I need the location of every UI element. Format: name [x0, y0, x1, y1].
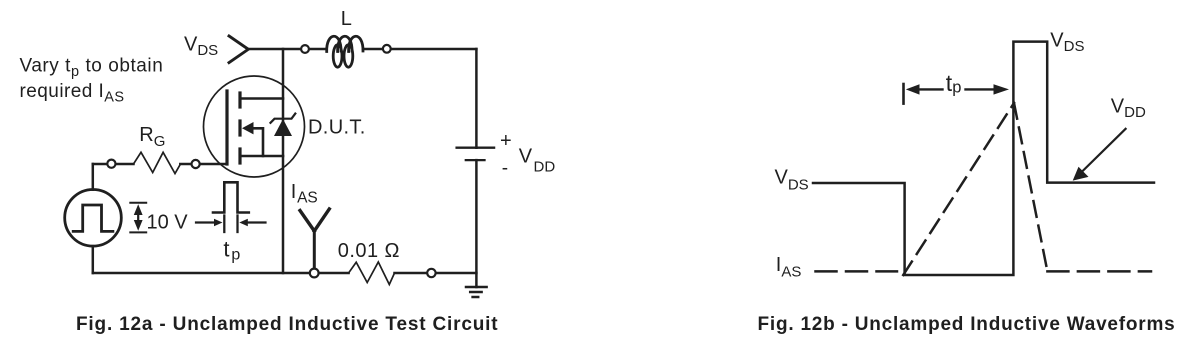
svg-text:VDS: VDS — [1050, 30, 1084, 55]
svg-text:VDS: VDS — [184, 34, 218, 60]
svg-text:Fig. 12a - Unclamped Inductive: Fig. 12a - Unclamped Inductive Test Circ… — [76, 314, 498, 335]
svg-text:Vary tp to obtain: Vary tp to obtain — [20, 56, 164, 81]
svg-text:required IAS: required IAS — [20, 81, 125, 106]
svg-text:-: - — [502, 158, 508, 179]
svg-text:VDD: VDD — [1111, 96, 1146, 122]
svg-text:tp: tp — [223, 236, 240, 263]
svg-text:10 V: 10 V — [147, 211, 189, 233]
svg-text:+: + — [500, 130, 512, 152]
svg-text:VDS: VDS — [775, 166, 809, 193]
svg-text:IAS: IAS — [776, 254, 802, 280]
svg-text:RG: RG — [139, 124, 165, 150]
svg-text:IAS: IAS — [291, 181, 318, 207]
svg-text:0.01 Ω: 0.01 Ω — [338, 240, 400, 262]
svg-text:tp: tp — [946, 70, 962, 97]
svg-text:Fig. 12b - Unclamped Inductive: Fig. 12b - Unclamped Inductive Waveforms — [758, 314, 1176, 335]
svg-text:L: L — [341, 8, 352, 30]
svg-text:D.U.T.: D.U.T. — [308, 116, 366, 138]
svg-text:VDD: VDD — [519, 146, 556, 176]
